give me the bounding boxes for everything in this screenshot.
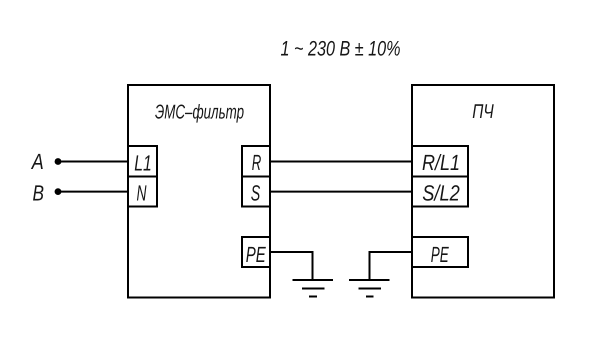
svg-text:R/L1: R/L1 [422, 150, 460, 175]
wire terminal S to terminal S/L2 [270, 191, 412, 193]
svg-text:ЭМС–фильтр: ЭМС–фильтр [155, 102, 244, 124]
wire terminal PE (U2) to ground GND2 [370, 252, 413, 280]
ground GND2 [349, 280, 390, 297]
wire node B to terminal N [58, 191, 128, 193]
terminal PE of U1 [242, 237, 270, 267]
svg-text:PE: PE [246, 242, 266, 267]
EMC filter block U1 (ЭМС-фильтр) [128, 85, 270, 298]
svg-text:S: S [251, 180, 261, 205]
terminal R of U1 [242, 146, 270, 177]
svg-text:PE: PE [431, 242, 449, 267]
svg-text:B: B [32, 180, 44, 205]
junction dot node B [55, 188, 62, 195]
wire terminal R to terminal R/L1 [270, 161, 412, 163]
svg-text:R: R [252, 150, 262, 175]
svg-text:S/L2: S/L2 [422, 180, 460, 205]
svg-text:1 ~ 230 В ± 10%: 1 ~ 230 В ± 10% [281, 38, 401, 61]
junction dot node A [55, 158, 62, 165]
terminal PE of U2 [412, 237, 468, 267]
svg-text:L1: L1 [134, 151, 152, 176]
svg-text:A: A [30, 149, 44, 174]
svg-text:N: N [137, 180, 147, 205]
svg-text:ПЧ: ПЧ [472, 101, 494, 123]
wire terminal PE (U1) to ground GND1 [270, 252, 313, 280]
terminal L1 of U1 [128, 146, 157, 177]
terminal S of U1 [242, 177, 270, 207]
terminal N of U1 [128, 177, 157, 207]
terminal S/L2 of U2 [412, 177, 468, 207]
ground GND1 [293, 280, 334, 297]
frequency converter block U2 (ПЧ) [412, 85, 554, 298]
wire node A to terminal L1 [58, 161, 128, 163]
terminal R/L1 of U2 [412, 146, 468, 177]
